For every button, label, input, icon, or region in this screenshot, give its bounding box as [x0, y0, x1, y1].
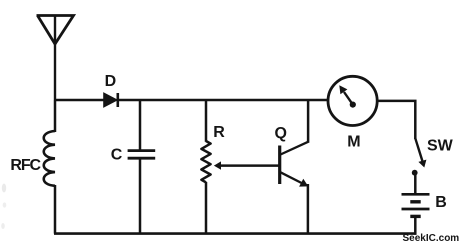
svg-text:R: R [213, 124, 225, 141]
wire top bus: diode cathode to meter [117, 99, 328, 102]
wire resistor branch top [205, 100, 208, 142]
antenna [37, 16, 74, 101]
wire collector to top bus [307, 100, 310, 143]
wire switch contact to battery [414, 173, 417, 195]
wire capacitor branch bottom [139, 158, 142, 233]
diode D [104, 93, 118, 107]
svg-text:C: C [111, 147, 123, 164]
svg-text:Q: Q [275, 125, 287, 142]
wire capacitor branch top [139, 100, 142, 151]
capacitor C [128, 151, 156, 159]
svg-text:SW: SW [427, 137, 454, 154]
svg-text:RFC: RFC [10, 157, 41, 174]
transistor Q [280, 142, 309, 187]
switch SW blade with arrowhead [415, 138, 426, 167]
scan smudge left edge [1, 184, 6, 230]
wire emitter to bottom bus [307, 184, 310, 234]
svg-text:SeekIC.com: SeekIC.com [403, 233, 460, 244]
inductor RFC [44, 131, 55, 186]
svg-text:M: M [347, 134, 360, 151]
svg-text:B: B [435, 194, 447, 211]
wire antenna to RFC [54, 100, 57, 132]
switch contact node [412, 170, 418, 176]
wire RFC to bottom bus [54, 185, 57, 234]
meter M [328, 76, 377, 125]
wire top bus: antenna node to diode anode [54, 99, 105, 102]
battery B [402, 194, 430, 216]
svg-text:D: D [105, 73, 117, 90]
wire meter to switch corner [377, 101, 415, 139]
wire resistor branch bottom [205, 182, 208, 234]
wiper arrow from transistor base to R [214, 161, 279, 169]
resistor R (wavy element) [201, 141, 210, 182]
wire bottom bus [54, 232, 416, 235]
wire battery to bottom bus [414, 216, 417, 234]
